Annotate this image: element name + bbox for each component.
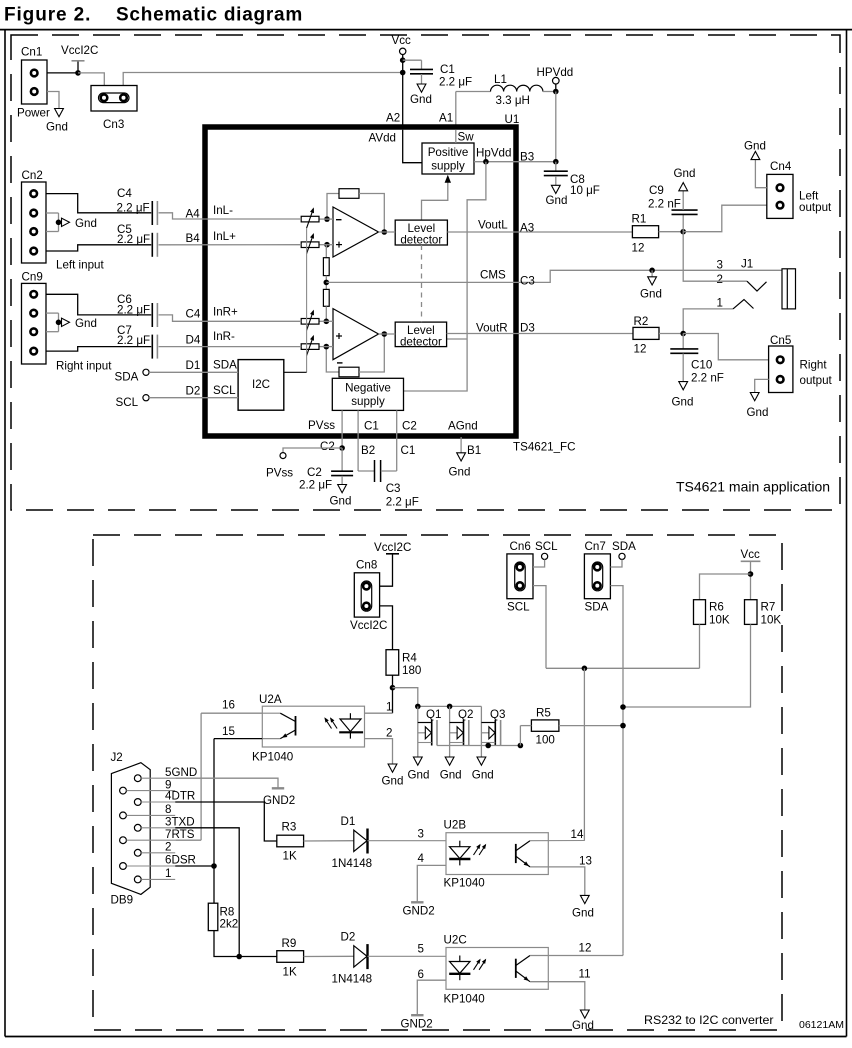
svg-text:D1: D1 [341,815,356,828]
svg-text:R3: R3 [282,821,297,834]
svg-text:Right: Right [800,359,828,372]
svg-text:10K: 10K [761,614,782,627]
svg-text:15: 15 [222,725,235,738]
svg-text:12: 12 [632,242,645,255]
svg-text:SDA: SDA [213,359,237,372]
svg-text:TS4621 main application: TS4621 main application [676,479,830,495]
svg-text:KP1040: KP1040 [444,877,485,890]
svg-text:C2: C2 [307,466,322,479]
svg-text:TS4621_FC: TS4621_FC [513,441,576,454]
svg-text:output: output [799,201,832,214]
svg-text:C4: C4 [117,187,132,200]
svg-text:Gnd: Gnd [674,167,696,180]
svg-text:3: 3 [717,259,723,272]
svg-text:Q1: Q1 [426,708,441,721]
svg-text:Cn9: Cn9 [22,271,43,284]
svg-text:2: 2 [165,841,171,854]
svg-text:detector: detector [400,233,442,246]
svg-text:VoutR: VoutR [476,322,508,335]
svg-text:Gnd: Gnd [572,1019,594,1032]
svg-text:Cn2: Cn2 [22,169,43,182]
svg-text:7RTS: 7RTS [165,828,195,841]
svg-text:Vcc: Vcc [392,34,412,47]
svg-text:VccI2C: VccI2C [374,541,411,554]
svg-text:InR+: InR+ [213,306,238,319]
svg-text:GND2: GND2 [403,905,435,918]
svg-text:D1: D1 [186,359,201,372]
svg-text:Gnd: Gnd [75,217,97,230]
svg-text:D2: D2 [341,931,356,944]
svg-text:L1: L1 [494,73,507,86]
svg-text:SDA: SDA [585,601,609,614]
svg-text:R4: R4 [402,652,417,665]
svg-text:3.3 μH: 3.3 μH [496,94,530,107]
svg-text:Gnd: Gnd [440,769,462,782]
svg-text:4DTR: 4DTR [165,790,195,803]
svg-text:B3: B3 [520,151,534,164]
svg-text:Right input: Right input [56,360,112,373]
svg-text:4: 4 [418,852,425,865]
svg-text:CMS: CMS [480,269,506,282]
svg-text:Gnd: Gnd [46,121,68,134]
svg-text:Q3: Q3 [490,708,505,721]
svg-text:Sw: Sw [458,131,475,144]
svg-text:1N4148: 1N4148 [332,857,373,870]
svg-text:R9: R9 [282,937,297,950]
svg-text:Vcc: Vcc [741,548,761,561]
svg-text:06121AM: 06121AM [799,1019,844,1031]
svg-text:3TXD: 3TXD [165,816,195,829]
svg-text:output: output [800,374,833,387]
svg-text:100: 100 [536,734,555,747]
svg-text:HpVdd: HpVdd [476,147,511,160]
svg-text:12: 12 [579,942,592,955]
svg-text:C2: C2 [402,420,417,433]
svg-text:GND2: GND2 [263,794,295,807]
svg-text:supply: supply [431,160,465,173]
svg-text:10 μF: 10 μF [570,184,600,197]
svg-text:1K: 1K [283,850,297,863]
svg-text:Gnd: Gnd [472,769,494,782]
svg-text:180: 180 [402,664,421,677]
svg-text:2.2 μF: 2.2 μF [439,76,472,89]
svg-text:Q2: Q2 [458,708,473,721]
svg-text:HPVdd: HPVdd [537,66,574,79]
svg-text:SCL: SCL [116,396,139,409]
svg-text:2.2 μF: 2.2 μF [117,202,150,215]
svg-text:2: 2 [386,727,392,740]
svg-text:16: 16 [222,699,235,712]
svg-text:InR-: InR- [213,330,235,343]
svg-text:C1: C1 [440,63,455,76]
svg-text:Gnd: Gnd [572,907,594,920]
svg-text:Gnd: Gnd [75,317,97,330]
svg-text:C3: C3 [520,275,535,288]
svg-text:U2B: U2B [444,819,467,832]
svg-text:Gnd: Gnd [747,406,769,419]
svg-text:2: 2 [717,273,723,286]
svg-text:DB9: DB9 [111,894,134,907]
svg-text:Negative: Negative [345,381,391,394]
svg-text:B4: B4 [186,232,201,245]
svg-text:11: 11 [579,968,591,981]
svg-text:VccI2C: VccI2C [61,44,98,57]
svg-text:3: 3 [418,828,424,841]
svg-text:U1: U1 [505,113,520,126]
svg-text:C3: C3 [386,482,401,495]
svg-text:Gnd: Gnd [410,93,432,106]
svg-text:GND2: GND2 [401,1018,433,1031]
svg-text:J1: J1 [741,258,753,271]
svg-text:2.2 μF: 2.2 μF [386,496,419,509]
svg-text:Cn6: Cn6 [510,540,531,553]
svg-text:B2: B2 [361,444,375,457]
svg-text:SCL: SCL [507,601,530,614]
svg-text:KP1040: KP1040 [252,751,293,764]
svg-text:PVss: PVss [266,467,293,480]
svg-text:Cn1: Cn1 [21,46,42,59]
svg-text:Positive: Positive [428,146,469,159]
svg-text:AGnd: AGnd [448,420,478,433]
svg-text:Cn5: Cn5 [770,334,791,347]
svg-text:Schematic diagram: Schematic diagram [116,4,303,25]
svg-text:Left input: Left input [56,259,104,272]
svg-text:R7: R7 [761,601,776,614]
svg-text:R2: R2 [634,315,649,328]
svg-text:5: 5 [418,943,424,956]
svg-text:AVdd: AVdd [369,132,397,145]
svg-text:C2: C2 [320,440,335,453]
svg-text:Gnd: Gnd [408,769,430,782]
svg-text:2.2 nF: 2.2 nF [648,198,681,211]
svg-text:12: 12 [634,343,647,356]
svg-text:A3: A3 [520,222,534,235]
svg-text:SDA: SDA [612,540,636,553]
svg-text:InL-: InL- [213,204,233,217]
svg-text:D4: D4 [186,334,201,347]
svg-text:C9: C9 [649,184,664,197]
svg-text:Gnd: Gnd [382,775,404,788]
svg-text:1N4148: 1N4148 [332,973,373,986]
svg-text:KP1040: KP1040 [444,993,485,1006]
svg-text:PVss: PVss [308,419,335,432]
svg-text:R6: R6 [709,601,724,614]
svg-text:Cn3: Cn3 [103,118,124,131]
svg-text:I2C: I2C [252,378,270,391]
svg-text:U2C: U2C [444,934,467,947]
svg-text:J2: J2 [111,751,123,764]
svg-text:C4: C4 [186,308,201,321]
svg-text:InL+: InL+ [213,230,236,243]
svg-text:6DSR: 6DSR [165,854,196,867]
svg-text:Figure 2.: Figure 2. [4,4,91,25]
svg-text:1: 1 [386,701,392,714]
svg-text:13: 13 [579,855,592,868]
svg-text:2.2 nF: 2.2 nF [691,372,724,385]
svg-text:A2: A2 [386,112,400,125]
svg-text:Gnd: Gnd [330,495,352,508]
svg-text:supply: supply [351,395,385,408]
svg-text:8: 8 [165,803,171,816]
svg-text:2.2 μF: 2.2 μF [299,479,332,492]
svg-text:D3: D3 [520,322,535,335]
svg-text:C1: C1 [401,444,416,457]
svg-text:2.2 μF: 2.2 μF [117,233,150,246]
svg-text:Cn4: Cn4 [770,160,792,173]
svg-text:14: 14 [571,828,584,841]
svg-text:VccI2C: VccI2C [350,619,387,632]
svg-text:SDA: SDA [115,371,139,384]
svg-text:A1: A1 [439,112,453,125]
svg-text:Power: Power [17,107,50,120]
svg-text:1K: 1K [283,966,297,979]
svg-text:C10: C10 [691,359,712,372]
svg-text:2.2 μF: 2.2 μF [117,304,150,317]
svg-text:2.2 μF: 2.2 μF [117,334,150,347]
svg-text:B1: B1 [467,444,481,457]
svg-text:10K: 10K [709,614,730,627]
svg-text:Gnd: Gnd [546,194,568,207]
svg-text:Gnd: Gnd [672,396,694,409]
svg-text:VoutL: VoutL [478,219,508,232]
svg-text:R1: R1 [632,213,647,226]
svg-text:detector: detector [400,335,442,348]
svg-text:R5: R5 [536,707,551,720]
svg-text:SCL: SCL [535,540,558,553]
svg-text:5GND: 5GND [165,766,197,779]
svg-text:Gnd: Gnd [640,288,662,301]
svg-text:D2: D2 [186,384,201,397]
svg-text:U2A: U2A [259,693,282,706]
svg-text:SCL: SCL [213,384,236,397]
svg-text:6: 6 [418,968,424,981]
svg-text:C1: C1 [364,420,379,433]
svg-text:2k2: 2k2 [220,918,239,931]
svg-text:RS232 to I2C converter: RS232 to I2C converter [644,1013,773,1027]
svg-text:Cn8: Cn8 [356,559,377,572]
svg-text:Gnd: Gnd [744,140,766,153]
svg-text:Cn7: Cn7 [585,540,606,553]
svg-text:1: 1 [717,297,723,310]
svg-text:Gnd: Gnd [449,466,471,479]
svg-text:1: 1 [165,867,171,880]
